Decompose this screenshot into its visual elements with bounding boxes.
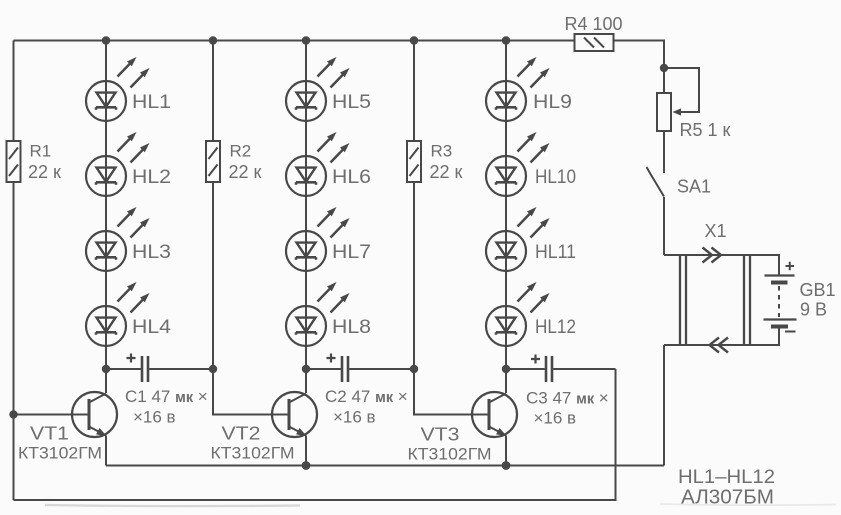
LED HL3 [86,207,150,271]
svg-text:R4 100: R4 100 [565,14,623,34]
C3 polarity plus [531,355,540,364]
node VT2 emitter bus junction [302,461,311,470]
X1 top contact chevrons [703,248,722,263]
resistor R3 [407,141,421,182]
wire LED column 1 [105,41,107,394]
node top rail R2 [209,36,217,44]
resistor R2 [206,141,220,182]
LED HL7 [286,207,350,271]
C1 polarity plus [127,354,136,363]
X1 bottom contact chevrons [710,338,729,353]
R5 wiper arrowhead [673,108,682,115]
wire R4 output to R5 corner [614,41,665,69]
svg-text:R1: R1 [30,142,52,161]
wire X1 bottom to emitter bus [663,345,665,466]
node C3 left junction [502,365,510,373]
LED HL5 [286,57,350,121]
wire LED column 2 [305,41,307,394]
wire C2 right lead [349,368,414,370]
node top rail col1 [102,36,110,44]
wire battery minus to X1 bottom row [664,327,779,345]
svg-text:22 к: 22 к [229,162,262,182]
svg-text:R3: R3 [431,142,453,161]
LED HL1 [86,57,150,121]
svg-text:C2 47 мк ×: C2 47 мк × [325,387,408,406]
svg-text:R5 1 к: R5 1 к [680,120,731,140]
svg-text:HL9: HL9 [533,92,572,113]
wire SA1 to X1 top contact [663,197,665,255]
wire R5 to SA1 [663,131,665,173]
svg-text:HL11: HL11 [535,242,576,263]
LED HL8 [286,282,350,346]
svg-text:HL6: HL6 [332,167,371,188]
transistor VT2 [272,392,317,437]
battery minus sign [785,331,796,333]
svg-text:КТ3102ГМ: КТ3102ГМ [211,444,295,463]
switch SA1 [647,167,665,197]
node C2 left junction [302,365,310,373]
wire VT1 base [14,414,90,416]
svg-text:×16 в: ×16 в [133,408,176,427]
capacitor C2 [342,356,348,382]
transistor VT3 [472,392,517,437]
wire top positive rail [14,40,575,42]
LED HL2 [86,132,150,196]
wire C3 right lead [553,368,615,370]
svg-text:9 В: 9 В [800,300,827,320]
scan smudge bottom right [660,504,836,505]
wire R2 to VT2 base [213,369,289,415]
node VT1 base junction [9,410,17,418]
capacitor C1 [142,356,148,382]
svg-text:GB1: GB1 [800,280,836,300]
svg-text:×16 в: ×16 в [534,409,577,428]
node C1 left junction [102,365,110,373]
svg-text:R2: R2 [230,142,252,161]
wire C3 feedback to VT1 base (bottom) [14,369,616,500]
wire C2 left lead [306,368,341,370]
svg-text:VT2: VT2 [222,424,261,444]
wire VT3 emitter to bus [505,436,507,466]
LED HL12 [486,282,550,346]
wire R5 top lead [663,68,665,93]
LED HL9 [486,57,550,121]
svg-text:C1 47 мк ×: C1 47 мк × [125,387,208,406]
svg-text:SA1: SA1 [677,177,711,197]
LED HL6 [286,132,350,196]
svg-text:×16 в: ×16 в [333,408,376,427]
svg-text:22 к: 22 к [430,162,463,182]
svg-text:HL3: HL3 [132,242,171,263]
svg-text:VT3: VT3 [421,425,460,445]
wire R3 rail [413,41,415,370]
wire emitter bus [106,465,664,467]
wire LED column 3 [505,41,507,394]
battery GB1 [764,276,797,327]
svg-text:VT1: VT1 [30,424,69,444]
node R5 top junction [660,64,668,72]
svg-text:22 к: 22 к [28,162,61,182]
wire VT1 emitter to bus [105,436,107,466]
wire left rail [13,41,15,501]
transistor VT1 [72,392,117,437]
wire C3 left lead [506,368,545,370]
LED HL11 [486,207,550,271]
node top rail col2 [302,36,310,44]
wire C1 right lead [149,368,213,370]
capacitor C3 [546,356,552,382]
svg-text:HL4: HL4 [132,317,171,338]
node VT3 emitter bus junction [502,461,511,470]
svg-text:X1: X1 [705,221,727,241]
battery plus sign [786,262,795,270]
resistor R4 [575,34,614,51]
svg-text:HL10: HL10 [535,167,576,188]
wire R3 to VT3 base [414,369,489,415]
node top rail R3 [410,36,418,44]
node C2 right junction [410,365,418,373]
wire VT2 emitter to bus [305,436,307,466]
svg-text:HL1–HL12: HL1–HL12 [678,467,775,488]
node top rail col3 [502,36,510,44]
svg-text:HL2: HL2 [132,167,171,188]
svg-text:HL12: HL12 [535,317,576,338]
wire X1 top row to battery plus [664,255,779,276]
wire C1 left lead [106,368,141,370]
svg-text:КТ3102ГМ: КТ3102ГМ [408,445,492,464]
resistor R5 body [657,93,671,131]
svg-text:HL5: HL5 [332,92,371,113]
svg-text:HL1: HL1 [132,92,171,113]
svg-text:HL8: HL8 [332,317,371,338]
wire R2 rail [212,41,214,370]
LED HL4 [86,282,150,346]
resistor R1 [7,141,21,182]
svg-text:КТ3102ГМ: КТ3102ГМ [18,444,102,463]
svg-text:C3 47 мк ×: C3 47 мк × [526,389,609,408]
scan smudge bottom left [45,505,300,506]
wire R5 wiper loop [664,68,699,112]
connector X1 housing bars [680,255,750,345]
node C1 right junction [209,365,217,373]
C2 polarity plus [327,354,336,363]
svg-text:HL7: HL7 [332,242,371,263]
LED HL10 [486,132,550,196]
